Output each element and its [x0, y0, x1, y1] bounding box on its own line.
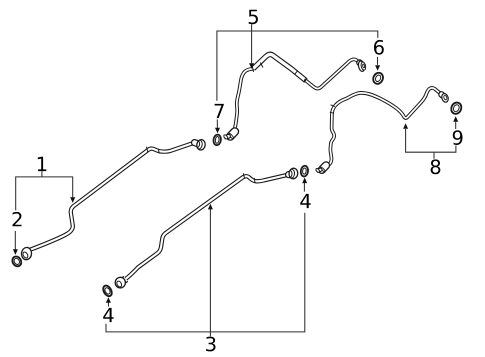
- arrow 2 to o-ring 2: [14, 231, 16, 250]
- o-ring 4 upper: [300, 165, 309, 177]
- o-ring 4 lower: [101, 284, 113, 298]
- bracket label 3 / 4: [106, 209, 305, 336]
- arrow to tube 1: [70, 197, 75, 203]
- tube 1 right end flange: [195, 139, 206, 150]
- bracket label 1: [16, 171, 73, 210]
- tube 5 left end fitting: [223, 132, 235, 140]
- o-ring 7: [213, 134, 222, 146]
- tick sleeve tube 5 mid: [294, 71, 307, 83]
- arrow to tube 5: [249, 63, 254, 69]
- label 4 lower: [103, 308, 113, 322]
- tick sleeve tube 1 shoulder: [147, 147, 160, 154]
- label 6: [374, 40, 384, 55]
- o-ring 9: [449, 101, 463, 116]
- tick sleeve tube 8: [330, 105, 335, 114]
- tube 1 left end flange: [21, 247, 32, 260]
- tube 8 right end: [441, 93, 450, 103]
- o-ring 2: [11, 255, 23, 268]
- bracket label 8 / 9: [406, 129, 456, 159]
- tick sleeve tube 3 shoulder: [243, 173, 255, 183]
- arrow to tube 8: [403, 123, 408, 129]
- label 8: [431, 159, 441, 174]
- tube 5: [234, 54, 359, 130]
- o-ring 6: [371, 71, 384, 85]
- tube 3 left end flange: [115, 277, 126, 289]
- tube 3: [126, 175, 289, 279]
- arrow 9 to o-ring 9: [455, 122, 457, 129]
- arrow to tube 3: [208, 204, 213, 210]
- label 7: [215, 104, 224, 118]
- label 4 upper: [300, 194, 310, 208]
- tube 3 right end flange: [288, 168, 298, 180]
- tube 8 left end fitting: [315, 165, 326, 173]
- tube 1: [30, 143, 195, 250]
- tube 5 right end flange: [358, 60, 367, 72]
- label 3: [206, 337, 215, 352]
- arrow 6 to o-ring 6: [377, 57, 379, 65]
- label 2: [13, 212, 22, 226]
- arrow 4 upper to o-ring: [303, 183, 305, 192]
- arrow 7 to o-ring 7: [216, 120, 218, 128]
- label 1: [38, 157, 47, 171]
- arrow 4 lower to o-ring: [108, 303, 110, 307]
- tube 8: [328, 88, 441, 165]
- tick sleeve tube 5 upper: [252, 63, 263, 73]
- label 9: [453, 130, 463, 145]
- bracket label 5: [217, 24, 378, 100]
- label 5: [249, 10, 258, 25]
